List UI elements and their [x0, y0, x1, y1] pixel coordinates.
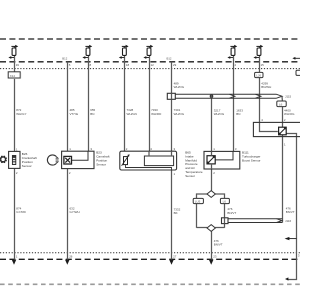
svg-text:J115: J115	[285, 94, 291, 98]
inline connector LU5	[193, 198, 203, 203]
fuse F? on wire 7328	[122, 45, 129, 56]
inline connector arrow on right edge wire	[285, 237, 297, 240]
page frame gray dashed line	[0, 283, 300, 285]
ground arrow wire 476	[209, 260, 214, 265]
svg-text:J116: J116	[285, 219, 291, 223]
wire 7301 WH/OG (x=171.5 bus to intake sensor pin 3)	[171, 99, 173, 152]
svg-text:12: 12	[151, 63, 155, 67]
connector arrow right edge top	[292, 57, 300, 60]
wire 4299 BN/WH (x=259 to box B pin 4)	[260, 47, 278, 132]
ground arrow wire 7332	[169, 260, 174, 265]
splice diamond top	[207, 191, 215, 198]
module boundary dashed line bottom	[0, 258, 300, 260]
ground arrow wire 874	[12, 260, 17, 265]
inline connector LJ6 on wire 4299	[255, 72, 263, 77]
wire 7332 BK (x=171.5 lower)	[171, 170, 173, 260]
connector arrow on wire 655	[82, 56, 88, 59]
fuse F? on wire 7330	[146, 45, 153, 56]
svg-text:18: 18	[126, 63, 130, 67]
wire 3217 WH/OG (x=212 bus to boost sensor pin 1)	[211, 94, 213, 151]
intake manifold pressure and air temperature sensor B65	[120, 151, 177, 170]
inline connector half box right edge	[296, 70, 303, 75]
connector arrow on wire 1633	[227, 56, 233, 59]
svg-text:26: 26	[69, 254, 73, 258]
connector dotted line bottom	[0, 252, 300, 254]
wire 1633 BN (x=233 through bus to boost sensor pin 3)	[233, 47, 235, 152]
inline connector L6 right branch	[220, 198, 229, 203]
svg-text:B12: B12	[62, 56, 67, 60]
fuse F? on wire 4299	[256, 45, 263, 56]
svg-text:L6: L6	[279, 103, 283, 107]
svg-text:27: 27	[173, 254, 177, 258]
wire 485 VT/YE (x=67.3 upper)	[67, 62, 69, 151]
connector dotted line top	[0, 68, 300, 70]
svg-text:B12: B12	[167, 56, 172, 60]
ground arrow wire 632	[65, 260, 70, 265]
wire 7328 WH/GN (x=124.4)	[124, 47, 126, 152]
camshaft position sensor B23	[62, 151, 94, 168]
svg-text:23: 23	[213, 254, 217, 258]
wire 4400 WH/OG (x=282.4 to box B pin 2)	[282, 107, 284, 128]
connector arrow on wire 4299	[253, 56, 259, 59]
off-page arrow bottom right	[285, 277, 288, 280]
fuse block connector box X14	[8, 72, 21, 79]
wire splice left branch (LU5)	[197, 194, 208, 198]
crankshaft trigger gear symbol	[0, 156, 7, 164]
connector arrow on wire 7330	[143, 56, 149, 59]
sensor box B (unlabeled pressure sensor, clipped at right edge)	[253, 122, 301, 136]
svg-text:L6: L6	[223, 200, 227, 204]
svg-text:LJ6: LJ6	[256, 74, 261, 78]
fuse F? on wire 872	[11, 45, 18, 56]
wire 7330 WH/RD (x=149)	[149, 47, 151, 152]
wire 476 BN/VT (box B pin 1 down to bus J116)	[282, 135, 284, 223]
splice bus J115	[167, 93, 282, 99]
module boundary dashed line 2	[0, 61, 300, 63]
connector arrow on wire 872	[8, 56, 14, 59]
svg-text:29: 29	[173, 63, 177, 67]
splice bus J116	[222, 218, 283, 224]
wire boost sensor pin 2 to splice diamond	[211, 169, 213, 191]
svg-text:19: 19	[16, 63, 20, 67]
wire 632 GY/WH (x=67.3 lower)	[67, 169, 69, 260]
splice diamond bottom	[207, 225, 215, 232]
fuse F? on wire 1633	[230, 45, 237, 56]
wire 489 WH/OG (x=171.5 above bus J115)	[171, 62, 173, 94]
wire 476 BN/VT (below splice diamond to ground)	[211, 231, 213, 259]
svg-text:X14: X14	[10, 74, 16, 78]
wire 872 WH/GY (x=14 upper)	[14, 47, 16, 152]
wire splice right branch (476 BN/VT via L6)	[215, 194, 224, 198]
wire right edge (box B side exit down to off-page arrow)	[286, 134, 296, 280]
inline connector L6 on wire 4400	[277, 96, 286, 106]
connector arrow on wire 7328	[119, 56, 125, 59]
wire 655 BN (x=88)	[88, 47, 90, 152]
turbocharger boost sensor B111	[204, 151, 240, 169]
crankshaft position sensor B26	[9, 151, 20, 168]
module boundary dashed line top (fuse block top)	[0, 38, 300, 40]
camshaft trigger wheel symbol	[47, 155, 58, 165]
svg-text:LU5: LU5	[195, 200, 201, 204]
fuse F? on wire 655	[85, 45, 92, 56]
splice junction dot on bus J115	[210, 94, 214, 98]
wire 874 GY/RD (x=14 lower)	[14, 168, 16, 259]
svg-text:15: 15	[261, 63, 265, 67]
